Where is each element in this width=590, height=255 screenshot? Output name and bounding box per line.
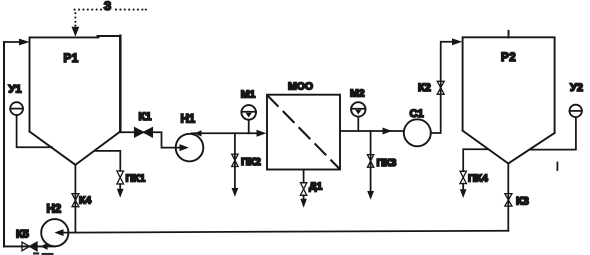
arrow into P1 top (feed) (72, 27, 80, 37)
arrow on discharge (40, 243, 47, 250)
svg-text:К3: К3 (516, 196, 529, 208)
tank P1 (30, 36, 121, 165)
svg-text:ПК3: ПК3 (377, 157, 397, 169)
svg-text:К2: К2 (418, 82, 431, 94)
svg-text:ПК2: ПК2 (241, 156, 261, 168)
wire H1 discharge to MOO (192, 132, 257, 134)
svg-text:Н2: Н2 (47, 204, 62, 216)
wire M1 stem (248, 120, 250, 134)
wire bottom return line (64, 231, 508, 233)
membrane diagonal (268, 96, 340, 169)
arrow to C1 (383, 128, 392, 135)
arrow PK1 outlet (117, 189, 124, 198)
wire H2 discharge bottom (4, 245, 55, 247)
arrow into P1 left (19, 39, 30, 46)
svg-text:К1: К1 (139, 111, 152, 123)
svg-text:Д1: Д1 (309, 181, 322, 193)
wire D1 drop (303, 170, 305, 183)
node I tick (556, 163, 558, 171)
svg-text:М1: М1 (241, 89, 256, 101)
valve K2 (437, 81, 444, 94)
valve K1 (135, 128, 153, 137)
tank P2 (463, 37, 555, 163)
svg-text:ПК4: ПК4 (468, 173, 488, 185)
arrow tick at H1 tangent (194, 130, 202, 136)
wire PK4 stub (463, 149, 488, 171)
svg-text:ПК1: ПК1 (126, 173, 146, 185)
wire PK1 stub (95, 151, 120, 171)
svg-text:Р2: Р2 (501, 52, 516, 64)
wire D1 tail (303, 195, 305, 199)
membrane unit MOO (267, 95, 340, 170)
drain valve D1 (300, 183, 306, 196)
sampling valve PK1 (117, 171, 124, 184)
node Z dotted feed line (74, 9, 147, 27)
wire recycle left vertical (3, 42, 5, 246)
wire PK3 drop (370, 131, 372, 191)
svg-text:МОО: МОО (288, 81, 313, 93)
wire PK2 drop (234, 133, 236, 188)
pump H2 (41, 219, 68, 246)
node P2 top tick (508, 31, 510, 38)
svg-text:У1: У1 (9, 84, 22, 96)
arrow into pump H1 (180, 144, 189, 151)
level gauge U2 (570, 105, 582, 117)
wire U1 stem (17, 115, 52, 147)
arrow PK3 outlet (367, 191, 374, 200)
level gauge U1 (10, 102, 23, 115)
gauge M2 (351, 102, 365, 116)
svg-text:Р1: Р1 (64, 53, 79, 65)
arrow into P2 (452, 38, 462, 45)
pump H1 (176, 134, 204, 162)
noise marks bottom edge (33, 252, 54, 255)
valve K5 (22, 242, 37, 251)
wire U2 stem (530, 117, 576, 150)
svg-text:З: З (104, 0, 112, 13)
wire PK1 tail (119, 184, 121, 189)
arrow into pump H2 (54, 229, 63, 236)
wire C1 outlet up (431, 42, 453, 133)
wire P2 outlet down (507, 164, 509, 231)
sampling valve PK4 (460, 171, 466, 183)
arrow into MOO (257, 130, 267, 137)
svg-text:К4: К4 (79, 195, 91, 207)
arrow D1 outlet (300, 199, 307, 208)
svg-text:М2: М2 (350, 88, 365, 100)
sampling valve PK2 (232, 154, 238, 166)
svg-text:К5: К5 (16, 229, 29, 241)
svg-text:У2: У2 (570, 82, 583, 94)
wire M2 stem (357, 117, 359, 131)
wire recycle into P1 (4, 41, 24, 43)
wire P1 outlet down through K4 (74, 165, 76, 233)
wire tank P1 outlet to K1 (120, 132, 180, 147)
valve K4 (72, 194, 79, 207)
gauge M1 (241, 105, 256, 120)
wire PK4 tail (462, 184, 464, 190)
svg-text:Н1: Н1 (181, 114, 196, 126)
arrow PK2 outlet (232, 188, 239, 197)
arrow PK4 outlet (460, 189, 467, 198)
wire MOO outlet (340, 130, 404, 132)
svg-text:С1: С1 (410, 108, 424, 120)
sampling valve PK3 (367, 155, 373, 168)
valve K3 (505, 194, 512, 207)
separator C1 (404, 119, 431, 146)
